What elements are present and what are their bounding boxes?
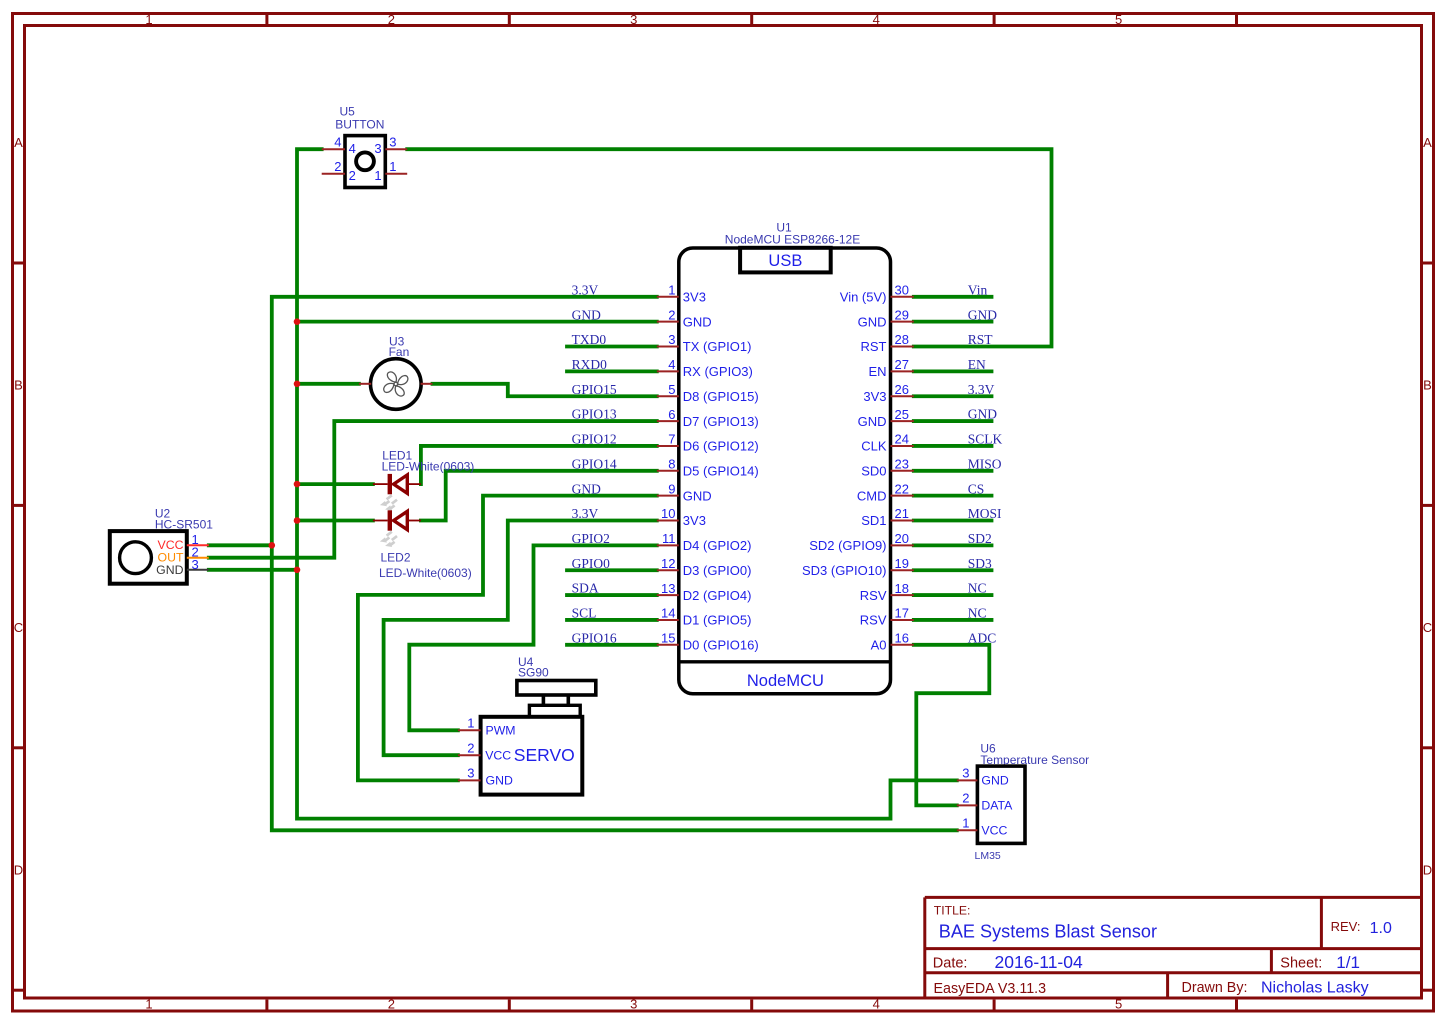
svg-text:3: 3 xyxy=(192,557,199,572)
svg-text:GPIO13: GPIO13 xyxy=(572,407,617,422)
U1 pin 12 D3 (GPIO0) xyxy=(657,556,752,578)
svg-text:SD0: SD0 xyxy=(861,463,886,478)
LED LED1 symbol xyxy=(373,474,421,494)
sensor U2 HC-SR501 body xyxy=(110,531,187,584)
junction GND rail / fan xyxy=(294,381,301,388)
svg-text:3: 3 xyxy=(668,332,675,347)
svg-text:3: 3 xyxy=(389,134,396,149)
U1 pin 15 D0 (GPIO16) xyxy=(657,630,759,652)
wire RXD0 stub xyxy=(567,369,657,373)
junction GND rail / U2 GND xyxy=(294,567,301,574)
svg-text:GND: GND xyxy=(486,774,513,788)
svg-text:SG90: SG90 xyxy=(518,666,549,680)
svg-text:2: 2 xyxy=(962,791,969,806)
wire fan right to U1 pin5 GPIO15 xyxy=(433,384,657,396)
svg-text:GPIO14: GPIO14 xyxy=(572,456,617,471)
U4 pin 1 PWM xyxy=(458,716,516,738)
U1 pin 11 D4 (GPIO2) xyxy=(657,531,752,553)
U1 USB tab xyxy=(740,248,831,273)
svg-text:21: 21 xyxy=(895,506,909,521)
svg-text:5: 5 xyxy=(1115,12,1122,27)
U6 pin 3 GND xyxy=(957,766,1009,788)
U2 pin 3 GND xyxy=(156,557,209,577)
svg-text:SDA: SDA xyxy=(572,581,599,596)
wire LED2 left to GND rail xyxy=(297,519,373,523)
svg-text:8: 8 xyxy=(668,456,675,471)
svg-text:12: 12 xyxy=(661,556,675,571)
svg-text:TX (GPIO1): TX (GPIO1) xyxy=(683,339,752,354)
svg-text:RST: RST xyxy=(861,339,887,354)
svg-text:D: D xyxy=(14,862,23,877)
svg-text:19: 19 xyxy=(895,556,909,571)
U5 pin 1 xyxy=(374,159,407,183)
svg-text:GND: GND xyxy=(683,488,712,503)
wire GND rail from button pin4 to U6 GND xyxy=(297,149,957,818)
sensor U6 body xyxy=(977,766,1025,843)
svg-text:D6 (GPIO12): D6 (GPIO12) xyxy=(683,439,759,454)
fan U3 blades icon xyxy=(384,372,408,396)
svg-text:NC: NC xyxy=(968,581,987,596)
svg-text:14: 14 xyxy=(661,606,675,621)
wire U2 GND to GND rail xyxy=(209,568,297,572)
svg-text:GND: GND xyxy=(981,774,1008,788)
svg-text:D7 (GPIO13): D7 (GPIO13) xyxy=(683,414,759,429)
svg-text:DATA: DATA xyxy=(981,799,1013,813)
svg-text:10: 10 xyxy=(661,506,675,521)
svg-text:4: 4 xyxy=(349,141,356,156)
svg-text:GND: GND xyxy=(156,563,183,577)
servo U4 body xyxy=(481,717,583,795)
svg-text:26: 26 xyxy=(895,382,909,397)
wire net SD2 pin20 xyxy=(914,543,992,547)
svg-text:SERVO: SERVO xyxy=(514,745,575,765)
svg-text:1: 1 xyxy=(389,159,396,174)
svg-text:BUTTON: BUTTON xyxy=(335,118,384,132)
svg-text:17: 17 xyxy=(895,606,909,621)
svg-text:22: 22 xyxy=(895,481,909,496)
U4 pin 3 GND xyxy=(458,766,513,788)
svg-text:D5 (GPIO14): D5 (GPIO14) xyxy=(683,463,759,478)
svg-text:Vin (5V): Vin (5V) xyxy=(840,290,887,305)
svg-text:VCC: VCC xyxy=(981,824,1007,838)
svg-text:1: 1 xyxy=(374,168,381,183)
svg-text:GPIO0: GPIO0 xyxy=(572,556,611,571)
wire SDA stub xyxy=(567,593,657,597)
U1 pin 18 RSV xyxy=(860,581,914,603)
wire net EN pin27 xyxy=(914,369,992,373)
U1 pin 22 CMD xyxy=(857,481,914,503)
svg-text:4: 4 xyxy=(334,134,341,149)
svg-text:SCL: SCL xyxy=(572,606,597,621)
U5 pin 4 xyxy=(322,134,356,156)
servo U4 neck xyxy=(543,695,568,706)
svg-text:MISO: MISO xyxy=(968,456,1002,471)
svg-text:1: 1 xyxy=(145,997,152,1012)
U3 pin 2 (right) xyxy=(421,383,433,385)
fan U3 body xyxy=(371,359,422,410)
junction GND rail / LED2 xyxy=(294,517,301,524)
U5 pin 3 xyxy=(374,134,407,156)
svg-text:TXD0: TXD0 xyxy=(572,332,607,347)
svg-text:6: 6 xyxy=(668,407,675,422)
svg-text:SD3: SD3 xyxy=(968,556,992,571)
svg-text:Vin: Vin xyxy=(968,282,988,297)
wire net NC pin17 xyxy=(914,618,992,622)
svg-text:24: 24 xyxy=(895,432,909,447)
servo U4 horn xyxy=(517,681,596,696)
wire net SCLK pin24 xyxy=(914,444,992,448)
svg-text:3: 3 xyxy=(630,12,637,27)
svg-text:13: 13 xyxy=(661,581,675,596)
svg-text:2: 2 xyxy=(388,997,395,1012)
svg-text:5: 5 xyxy=(668,382,675,397)
wire net SD3 pin19 xyxy=(914,568,992,572)
svg-text:4: 4 xyxy=(873,997,880,1012)
svg-text:RX (GPIO3): RX (GPIO3) xyxy=(683,364,753,379)
junction GND rail / pin2 xyxy=(294,318,301,325)
U1 pin 30 Vin (5V) xyxy=(840,283,914,305)
svg-text:EasyEDA V3.11.3: EasyEDA V3.11.3 xyxy=(934,981,1047,997)
servo U4 upper box xyxy=(529,705,580,717)
U5 pin 2 xyxy=(322,159,356,183)
wire net Vin pin30 xyxy=(914,295,992,299)
svg-text:1: 1 xyxy=(962,816,969,831)
svg-text:3: 3 xyxy=(630,997,637,1012)
svg-text:MOSI: MOSI xyxy=(968,506,1002,521)
U1 pin 26 3V3 xyxy=(863,382,913,404)
svg-text:7: 7 xyxy=(668,432,675,447)
svg-text:28: 28 xyxy=(895,332,909,347)
svg-text:SD2 (GPIO9): SD2 (GPIO9) xyxy=(809,538,886,553)
wire RST pin28 to button pin3 xyxy=(407,149,1051,346)
wire fan left to GND rail xyxy=(297,382,359,386)
U1 pin 16 A0 xyxy=(871,630,914,652)
wire net GND pin25 xyxy=(914,419,992,423)
U4 pin 2 VCC xyxy=(458,740,511,762)
svg-text:4: 4 xyxy=(668,357,675,372)
U1 pin 28 RST xyxy=(861,332,914,354)
svg-text:2: 2 xyxy=(388,12,395,27)
svg-text:3: 3 xyxy=(962,766,969,781)
wire TXD0 stub xyxy=(567,345,657,349)
svg-text:25: 25 xyxy=(895,407,909,422)
svg-text:18: 18 xyxy=(895,581,909,596)
wire U1 pin9 GND to servo GND xyxy=(358,496,657,781)
U1 pin 27 EN xyxy=(868,357,913,379)
svg-text:Nicholas Lasky: Nicholas Lasky xyxy=(1261,980,1369,997)
svg-text:2: 2 xyxy=(349,168,356,183)
svg-text:SCLK: SCLK xyxy=(968,432,1003,447)
svg-text:ADC: ADC xyxy=(968,630,997,645)
svg-text:D3 (GPIO0): D3 (GPIO0) xyxy=(683,563,752,578)
svg-text:3V3: 3V3 xyxy=(683,513,706,528)
svg-text:1: 1 xyxy=(145,12,152,27)
svg-text:15: 15 xyxy=(661,630,675,645)
wire U1 pin11 D4 to servo PWM xyxy=(409,545,657,730)
U3 pin 1 (left) xyxy=(359,383,371,385)
svg-text:3V3: 3V3 xyxy=(683,290,706,305)
svg-text:Fan: Fan xyxy=(389,345,410,359)
svg-text:3.3V: 3.3V xyxy=(572,282,599,297)
svg-text:D1 (GPIO5): D1 (GPIO5) xyxy=(683,613,752,628)
svg-text:GND: GND xyxy=(683,314,712,329)
svg-text:GPIO2: GPIO2 xyxy=(572,531,610,546)
svg-text:16: 16 xyxy=(895,630,909,645)
U1 pin 20 SD2 (GPIO9) xyxy=(809,531,914,553)
svg-text:23: 23 xyxy=(895,456,909,471)
svg-text:CS: CS xyxy=(968,481,985,496)
svg-text:RXD0: RXD0 xyxy=(572,357,608,372)
U6 pin 1 VCC xyxy=(957,816,1008,838)
svg-text:2: 2 xyxy=(334,159,341,174)
svg-text:9: 9 xyxy=(668,481,675,496)
LED LED1 emission arrows xyxy=(380,495,397,510)
svg-text:CMD: CMD xyxy=(857,488,887,503)
svg-text:1.0: 1.0 xyxy=(1370,920,1392,937)
wire SCL stub xyxy=(567,618,657,622)
U1 pin 1 3V3 xyxy=(657,283,706,305)
svg-text:D8 (GPIO15): D8 (GPIO15) xyxy=(683,389,759,404)
U1 pin 5 D8 (GPIO15) xyxy=(657,382,759,404)
svg-text:GND: GND xyxy=(858,414,887,429)
pushbutton U5 body xyxy=(345,136,385,188)
svg-text:EN: EN xyxy=(868,364,886,379)
wire 3.3V rail xyxy=(272,297,957,831)
svg-text:SD3 (GPIO10): SD3 (GPIO10) xyxy=(802,563,887,578)
svg-text:Date:: Date: xyxy=(933,955,968,971)
U1 pin 13 D2 (GPIO4) xyxy=(657,581,752,603)
U1 pin 10 3V3 xyxy=(657,506,706,528)
svg-text:CLK: CLK xyxy=(861,439,887,454)
svg-text:RSV: RSV xyxy=(860,588,887,603)
svg-text:BAE Systems Blast Sensor: BAE Systems Blast Sensor xyxy=(939,921,1157,941)
svg-text:3V3: 3V3 xyxy=(863,389,886,404)
svg-text:27: 27 xyxy=(895,357,909,372)
svg-text:3: 3 xyxy=(467,766,474,781)
junction 3.3V rail / U2 VCC xyxy=(269,542,276,549)
wire U1 pin2 GND xyxy=(297,320,657,324)
svg-text:NC: NC xyxy=(968,606,987,621)
svg-text:D0 (GPIO16): D0 (GPIO16) xyxy=(683,637,759,652)
title block xyxy=(925,897,1422,998)
svg-text:PWM: PWM xyxy=(486,723,516,737)
svg-text:Sheet:: Sheet: xyxy=(1280,955,1322,971)
svg-text:TITLE:: TITLE: xyxy=(934,904,971,918)
LED LED2 emission arrows xyxy=(380,532,397,547)
wire U1 pin10 3V3 to servo VCC xyxy=(384,521,657,756)
svg-text:A0: A0 xyxy=(871,637,887,652)
svg-text:GPIO16: GPIO16 xyxy=(572,630,617,645)
wire net NC pin18 xyxy=(914,593,992,597)
U1 pin 29 GND xyxy=(858,307,914,329)
svg-text:GND: GND xyxy=(572,481,601,496)
svg-text:3.3V: 3.3V xyxy=(968,382,995,397)
wire net MISO pin23 xyxy=(914,469,992,473)
svg-text:SD1: SD1 xyxy=(861,513,886,528)
U1 pin 25 GND xyxy=(858,407,914,429)
U1 pin 9 GND xyxy=(657,481,712,503)
U1 pin 2 GND xyxy=(657,307,712,329)
svg-text:GPIO15: GPIO15 xyxy=(572,382,617,397)
junction GND rail / LED1 xyxy=(294,481,301,488)
svg-text:U5: U5 xyxy=(340,105,356,119)
svg-text:1: 1 xyxy=(668,283,675,298)
wire net MOSI pin21 xyxy=(914,519,992,523)
svg-text:B: B xyxy=(14,378,23,393)
svg-text:3: 3 xyxy=(374,141,381,156)
wire net CS pin22 xyxy=(914,494,992,498)
U6 pin 2 DATA xyxy=(957,791,1013,813)
svg-text:Drawn By:: Drawn By: xyxy=(1182,980,1248,996)
svg-text:GND: GND xyxy=(572,307,601,322)
U1 pin 4 RX (GPIO3) xyxy=(657,357,753,379)
svg-text:RSV: RSV xyxy=(860,613,887,628)
svg-text:2: 2 xyxy=(668,307,675,322)
svg-text:D: D xyxy=(1423,862,1432,877)
svg-text:D4 (GPIO2): D4 (GPIO2) xyxy=(683,538,752,553)
svg-text:VCC: VCC xyxy=(485,748,511,762)
svg-text:USB: USB xyxy=(768,252,802,270)
svg-text:NodeMCU: NodeMCU xyxy=(747,672,824,690)
svg-text:29: 29 xyxy=(895,307,909,322)
U1 pin 6 D7 (GPIO13) xyxy=(657,407,759,429)
U1 pin 23 SD0 xyxy=(861,456,914,478)
svg-text:D2 (GPIO4): D2 (GPIO4) xyxy=(683,588,752,603)
U1 pin 14 D1 (GPIO5) xyxy=(657,606,752,628)
svg-text:11: 11 xyxy=(662,531,676,546)
svg-text:B: B xyxy=(1423,378,1432,393)
svg-text:LED-White(0603): LED-White(0603) xyxy=(379,566,472,580)
wire LED1 left to GND rail xyxy=(297,482,373,486)
svg-text:NodeMCU ESP8266-12E: NodeMCU ESP8266-12E xyxy=(725,233,860,247)
wire LED2 right to U1 pin8 GPIO14 xyxy=(421,471,657,521)
svg-text:C: C xyxy=(1423,620,1432,635)
U1 pin 7 D6 (GPIO12) xyxy=(657,432,759,454)
svg-text:EN: EN xyxy=(968,357,986,372)
wire net 3.3V pin26 xyxy=(914,394,992,398)
U1 pin 8 D5 (GPIO14) xyxy=(657,456,759,478)
wire GPIO16 stub xyxy=(567,643,657,647)
U1 pin 3 TX (GPIO1) xyxy=(657,332,752,354)
U1 pin 19 SD3 (GPIO10) xyxy=(802,556,914,578)
svg-text:SD2: SD2 xyxy=(968,531,992,546)
svg-text:C: C xyxy=(14,620,23,635)
IC U1 NodeMCU ESP8266-12E body xyxy=(679,248,891,694)
wire LED1 right to U1 pin7 GPIO12 xyxy=(421,446,657,484)
U1 pin 21 SD1 xyxy=(861,506,914,528)
svg-text:LED-White(0603): LED-White(0603) xyxy=(382,460,475,474)
wire net GND pin29 xyxy=(914,320,992,324)
svg-text:1/1: 1/1 xyxy=(1336,953,1360,972)
wire GPIO0 stub xyxy=(567,568,657,572)
wire ADC pin16 to U6 DATA xyxy=(914,645,990,806)
svg-text:A: A xyxy=(14,135,23,150)
U2 pin 2 OUT xyxy=(158,545,209,565)
svg-text:1: 1 xyxy=(467,716,474,731)
svg-text:30: 30 xyxy=(895,283,909,298)
U1 pin 24 CLK xyxy=(861,432,914,454)
LED LED2 symbol xyxy=(373,510,421,530)
svg-text:GND: GND xyxy=(858,314,887,329)
svg-text:20: 20 xyxy=(895,531,909,546)
svg-text:GPIO12: GPIO12 xyxy=(572,432,617,447)
svg-text:GND: GND xyxy=(968,307,997,322)
svg-text:LED2: LED2 xyxy=(381,551,411,565)
svg-text:RST: RST xyxy=(968,332,994,347)
U1 pin 17 RSV xyxy=(860,606,914,628)
svg-text:5: 5 xyxy=(1115,997,1122,1012)
svg-text:REV:: REV: xyxy=(1331,919,1361,934)
wire U2 OUT to U1 pin6 GPIO13 xyxy=(209,421,657,558)
svg-text:4: 4 xyxy=(873,12,880,27)
U2 pin 1 VCC xyxy=(158,532,209,552)
wire U2 VCC to 3.3V rail xyxy=(209,543,272,547)
svg-text:A: A xyxy=(1423,135,1432,150)
svg-text:LM35: LM35 xyxy=(975,850,1001,862)
svg-text:2: 2 xyxy=(467,740,474,755)
svg-text:GND: GND xyxy=(968,407,997,422)
svg-text:2016-11-04: 2016-11-04 xyxy=(995,952,1083,972)
svg-text:3.3V: 3.3V xyxy=(572,506,599,521)
